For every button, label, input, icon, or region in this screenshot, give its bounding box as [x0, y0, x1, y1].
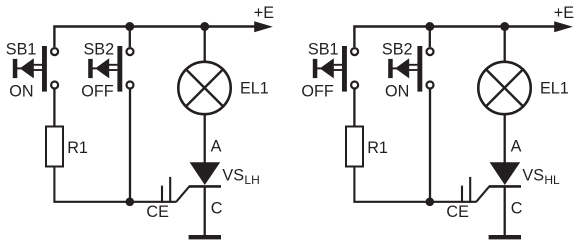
svg-text:C: C — [211, 199, 223, 217]
wire: +E supply rail (left circuit) — [54, 27, 256, 48]
button cap bar — [13, 59, 17, 78]
svg-text:A: A — [211, 138, 222, 156]
node: gate bus junction (left) — [126, 198, 135, 207]
actuator prongs — [409, 64, 417, 66]
fixed contact (top) — [427, 48, 434, 55]
wire: rail to lamp EL1 (left) — [204, 27, 206, 63]
contact bridge bar — [117, 46, 122, 92]
actuator stem — [392, 67, 396, 69]
svg-text:VS: VS — [222, 167, 244, 185]
svg-text:CE: CE — [146, 203, 169, 221]
svg-text:SB1: SB1 — [6, 41, 37, 59]
svg-text:HL: HL — [544, 173, 560, 187]
fixed contact (top) — [351, 48, 358, 55]
svg-text:SB2: SB2 — [84, 41, 115, 59]
lamp EL1 (right) — [478, 62, 530, 114]
svg-text:ON: ON — [385, 82, 409, 100]
wire: cathode to ground (right) — [504, 186, 506, 235]
contact bridge bar — [342, 46, 347, 92]
wire: +E supply rail (right circuit) — [354, 27, 556, 48]
button cap bar — [88, 59, 93, 78]
actuator arrow — [395, 58, 409, 78]
node: rail junction at SB2 column (left) — [125, 22, 134, 31]
actuator stem — [92, 67, 96, 69]
fixed contact (bottom) — [427, 82, 434, 89]
wire: rail to SB2 top contact — [129, 27, 131, 48]
svg-text:OFF: OFF — [301, 82, 333, 100]
+E arrow (right) — [554, 21, 573, 32]
wire: R1 to gate bus (left) — [54, 167, 176, 202]
actuator prongs — [334, 64, 342, 66]
thyristor VS_HL (right) — [489, 162, 521, 186]
gate tick marks CE (right) — [461, 186, 463, 203]
wire: R1 to gate bus (right) — [354, 167, 476, 202]
wire: SB1 bottom contact to R1 (left) — [53, 89, 55, 127]
wire: SB2 bottom contact down to gate bus (left) — [129, 89, 131, 202]
wire: SB1 bottom contact to R1 (right) — [353, 89, 355, 127]
gate tick marks CE (left) — [161, 186, 163, 203]
thyristor VS_LH (left) — [189, 162, 221, 186]
pushbutton SB1 (right circuit) — [313, 46, 358, 92]
node: rail junction at EL1 column (right) — [500, 22, 509, 31]
gate lead diagonal (left) — [176, 187, 189, 202]
svg-text:A: A — [511, 138, 522, 156]
svg-text:VS: VS — [522, 167, 544, 185]
node: rail junction at EL1 column (left) — [200, 22, 209, 31]
gate lead diagonal (right) — [476, 187, 489, 202]
svg-text:+E: +E — [254, 4, 274, 22]
ground (left) — [189, 235, 221, 239]
fixed contact (bottom) — [51, 82, 58, 89]
fixed contact (bottom) — [127, 82, 134, 89]
svg-text:SB1: SB1 — [308, 41, 339, 59]
actuator arrow — [20, 58, 34, 78]
wire: lamp to thyristor anode (left) — [204, 114, 206, 163]
actuator prongs — [34, 64, 42, 66]
pushbutton SB2 (right circuit) — [388, 27, 433, 92]
button cap bar — [313, 59, 318, 78]
contact bridge bar — [42, 46, 47, 92]
svg-text:R1: R1 — [67, 139, 88, 157]
fixed contact (bottom) — [351, 82, 358, 89]
svg-text:C: C — [511, 199, 523, 217]
actuator arrow — [95, 58, 109, 78]
fixed contact (top) — [51, 48, 58, 55]
resistor R1 (right) — [346, 127, 363, 167]
fixed contact (top) — [127, 48, 134, 55]
svg-text:+E: +E — [554, 4, 574, 22]
svg-text:OFF: OFF — [81, 82, 113, 100]
node: gate bus junction (right) — [426, 198, 435, 207]
svg-text:EL1: EL1 — [240, 80, 269, 98]
svg-text:CE: CE — [446, 203, 469, 221]
svg-text:SB2: SB2 — [382, 41, 413, 59]
pushbutton SB2 (left circuit) — [88, 27, 133, 92]
svg-text:R1: R1 — [367, 139, 388, 157]
svg-text:ON: ON — [9, 82, 33, 100]
actuator prongs — [109, 64, 117, 66]
resistor R1 (left) — [46, 127, 63, 167]
+E arrow (left) — [254, 21, 273, 32]
node: rail junction at SB2 column (right) — [425, 22, 434, 31]
wire: rail to lamp EL1 (right) — [504, 27, 506, 63]
pushbutton SB1 (left circuit) — [13, 46, 58, 92]
contact bridge bar — [417, 46, 422, 92]
wire: SB2 bottom contact down to gate bus (right) — [429, 89, 431, 202]
button cap bar — [388, 59, 393, 78]
wire: lamp to thyristor anode (right) — [504, 114, 506, 163]
ground (right) — [489, 235, 521, 239]
lamp EL1 (left) — [178, 62, 230, 114]
wire: cathode to ground (left) — [204, 186, 206, 235]
actuator arrow — [320, 58, 334, 78]
svg-text:LH: LH — [244, 173, 259, 187]
svg-text:EL1: EL1 — [540, 80, 569, 98]
actuator stem — [17, 67, 21, 69]
actuator stem — [317, 67, 321, 69]
wire: rail to SB2 top contact — [429, 27, 431, 48]
